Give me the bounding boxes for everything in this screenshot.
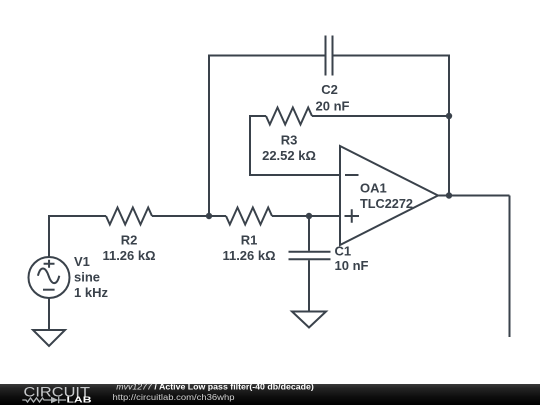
svg-text:TLC2272: TLC2272 [360,196,413,211]
wire node A to R1 [209,215,226,217]
op-amp OA1 [340,146,438,245]
wire node B down to C1 [308,216,310,251]
node junction R3/C2 feedback [446,113,452,119]
wire R2 to node A [152,215,209,217]
svg-text:C1: C1 [335,244,352,259]
wire node B to non-inverting input [309,215,340,217]
resistor R2 [106,208,152,225]
logo resistor zigzag [22,398,51,402]
label OA1 TLC2272 [360,180,413,211]
label V1 sine 1 kHz [74,254,108,300]
svg-text:C2: C2 [321,82,338,97]
voltage source V1 [29,257,70,298]
svg-text:22.52 kΩ: 22.52 kΩ [262,148,316,163]
logo diode [51,397,58,404]
svg-text:R3: R3 [281,132,298,147]
svg-text:11.26 kΩ: 11.26 kΩ [222,248,275,263]
wire node A up and over to C2 [209,56,325,217]
ground under V1 [33,330,65,346]
ground under C1 [292,312,326,328]
svg-text:sine: sine [74,270,100,285]
resistor R3 [266,108,312,125]
wire C2 to right vertical feedback [334,56,450,196]
wire C1 to ground [308,260,310,311]
wire R3 left lead down to inverting input [250,116,340,175]
node A junction [206,213,212,219]
capacitor C2 [326,36,333,76]
wire V1 bottom to ground [48,298,50,330]
resistor R1 [226,208,272,225]
svg-text:R2: R2 [121,232,138,247]
label C2 value [316,82,350,114]
wire V1 top to main node [49,216,106,257]
svg-text:1 kHz: 1 kHz [74,285,108,300]
svg-text:11.26 kΩ: 11.26 kΩ [102,248,155,263]
wire output down [509,196,511,338]
op-amp inverting input mark [345,174,359,176]
svg-text:http://circuitlab.com/ch36whp: http://circuitlab.com/ch36whp [113,393,236,402]
V1 plus mark [44,260,55,268]
svg-text:LAB: LAB [67,395,93,404]
wire R3 right lead [312,115,449,117]
node B junction [306,213,312,219]
label R3 value [262,132,316,163]
wire R1 to node B [272,215,309,217]
V1 sine wave [38,268,59,283]
svg-text:mvv1277 / Active Low pass filt: mvv1277 / Active Low pass filter(-40 db/… [116,383,314,392]
footer bar [0,384,540,405]
svg-text:V1: V1 [74,254,90,269]
svg-text:OA1: OA1 [360,180,387,195]
svg-text:20 nF: 20 nF [316,99,350,114]
svg-text:R1: R1 [241,232,258,247]
svg-text:10 nF: 10 nF [335,258,369,273]
V1 minus mark [43,289,55,291]
label R1 value [222,232,275,263]
label R2 value [102,232,155,263]
op-amp non-inverting input mark [345,209,360,223]
capacitor C1 [289,252,331,259]
output node junction [446,192,452,198]
label C1 value [335,244,369,274]
wire op-amp output to right [438,195,510,197]
